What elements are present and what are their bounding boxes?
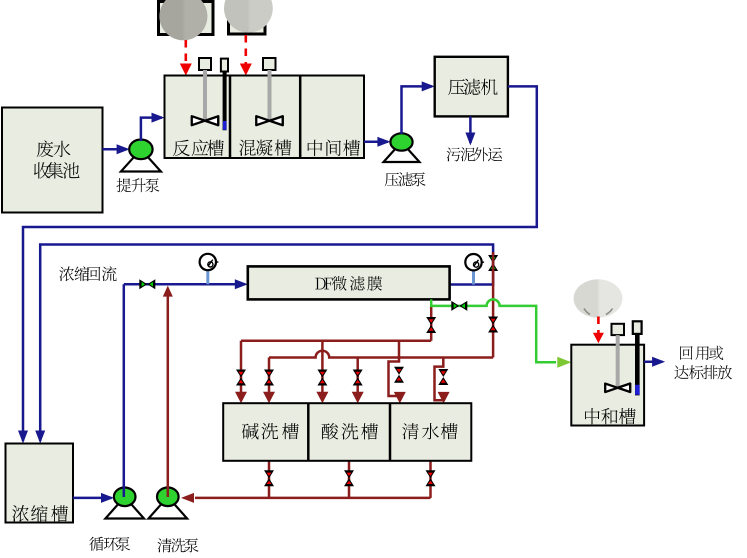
pipe 压滤泵 to 压滤机 (402, 86, 433, 134)
pipe 循环泵 to DF 微滤膜 feed (124, 283, 245, 286)
tank 浓缩槽 (6, 444, 74, 523)
pipe 压滤机 sludge outlet (469, 116, 472, 143)
valve on permeate line (451, 301, 459, 311)
branch V6 to 清水槽 (bypass jog) (435, 358, 444, 401)
tank row 碱洗槽/酸洗槽/清水槽 (223, 403, 471, 461)
pressure gauge 2 (472, 270, 475, 284)
pipe right riser (clean supply) (492, 252, 495, 358)
tank 废水收集池 (2, 108, 103, 213)
tank row 反应槽/混凝槽/中间槽 (165, 76, 365, 159)
branch V3 to 酸洗槽 (321, 341, 324, 392)
dosing line to 反应槽 (red dashed arrow) (185, 40, 188, 64)
label 碱洗槽 (242, 423, 299, 439)
wash tank divider 2 (389, 403, 392, 461)
pH probe in 中和槽 (633, 321, 642, 334)
tank bottom outlet 碱洗槽 (268, 461, 271, 498)
pipe DF return loop to 浓缩槽 (40, 245, 493, 442)
label 达标排放 (674, 365, 732, 379)
dosing line to 中和槽 (red dashed arrow) (597, 317, 600, 335)
label 浓缩槽 (12, 505, 68, 522)
pipe into 循环泵 (overlay) (123, 486, 126, 497)
label 中间槽 (308, 140, 360, 157)
label 中和槽 (585, 408, 636, 424)
label 提升泵 (117, 178, 160, 192)
pipe 废水收集池 to 提升泵 (103, 148, 128, 151)
label 酸洗槽 (322, 423, 378, 440)
pump 压滤泵 (384, 142, 420, 162)
tank divider 2 (299, 76, 302, 159)
header L1 (241, 339, 431, 342)
pipe 中间槽 to 压滤泵 (364, 141, 388, 144)
pipe into 清洗泵 (overlay) (167, 486, 170, 497)
branch V4 to 酸洗槽 (356, 358, 359, 393)
label 清水槽 (402, 423, 457, 439)
tank bottom outlet 酸洗槽 (348, 461, 351, 498)
valve on feed line (green) (139, 279, 147, 289)
label 压滤机 (448, 79, 497, 95)
pump 循环泵 (105, 497, 144, 519)
valve on right riser lower (488, 317, 498, 325)
pipe 浓缩槽 to 循环泵 (73, 497, 112, 500)
branch V1 to 碱洗槽 (240, 341, 243, 392)
valve on right riser upper (488, 255, 498, 263)
branch V5 to 清水槽 (bypass jog) (389, 341, 400, 396)
pipe drop from green junction with valve (430, 306, 433, 341)
label 废水收集池 (37, 141, 71, 158)
pipe elbow down to 循环泵 (123, 284, 126, 497)
tank divider 1 (229, 76, 232, 159)
label DF微滤膜 (315, 276, 382, 291)
label 混凝槽 (239, 140, 291, 156)
header L2 with hop over V3 (269, 351, 493, 358)
valve on junction drop (426, 317, 436, 325)
label 压滤泵 (385, 172, 426, 186)
chemical dosing ball 3 (0, 0, 1, 1)
tank 中和槽 (571, 345, 644, 426)
label 污泥外运 (447, 147, 503, 161)
label 回用或 (680, 346, 723, 360)
chemical dosing ball 2 (0, 0, 1, 1)
label 清洗泵 (157, 538, 198, 552)
pH probe in 反应槽 (221, 59, 228, 72)
pipe bottom collector to 清洗泵 (195, 497, 431, 500)
pressure gauge 1 (206, 270, 209, 284)
label 浓缩回流 (59, 266, 116, 281)
branch V2 to 碱洗槽 (268, 358, 271, 393)
tank bottom outlet 清水槽 (429, 461, 432, 498)
pump 清洗泵 (149, 497, 188, 519)
stirrer in 混凝槽 (263, 58, 276, 70)
box 压滤机 (435, 57, 508, 117)
pipe 提升泵 to 反应槽 (141, 118, 162, 141)
pipe 清洗泵 riser to feed line (167, 296, 170, 497)
pump 提升泵 (121, 149, 161, 171)
wash tank divider 1 (307, 403, 310, 461)
box DF微滤膜 (248, 266, 450, 299)
label 循环泵 (89, 537, 130, 551)
pipe permeate (green) to 中和槽 (431, 299, 556, 362)
chemical dosing box 1 (159, 2, 214, 35)
chemical dosing box 2 (229, 2, 266, 35)
pipe 压滤机 filtrate to 浓缩槽 (23, 86, 537, 441)
stirrer in 反应槽 (199, 58, 211, 70)
dosing line to 混凝槽 (red dashed arrow) (245, 35, 248, 64)
label 反应槽 (173, 140, 224, 157)
stirrer in 中和槽 (612, 324, 625, 335)
chemical dosing ball 1 (0, 0, 1, 1)
pipe 中和槽 outlet (644, 361, 662, 364)
